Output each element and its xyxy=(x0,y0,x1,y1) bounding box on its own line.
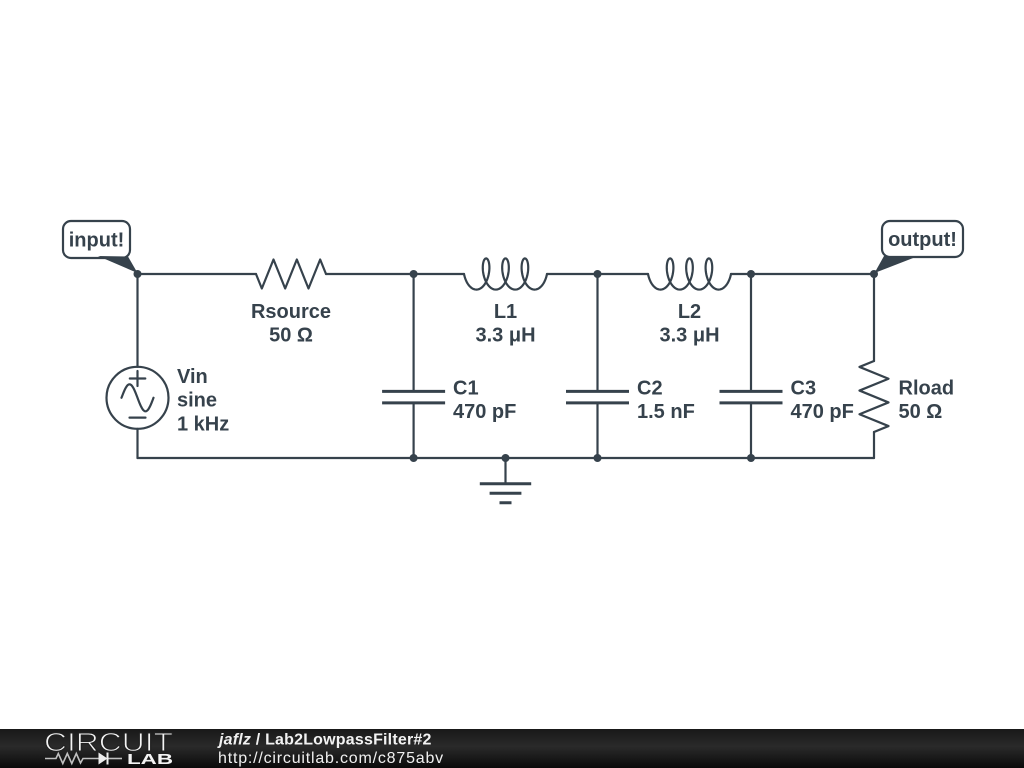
svg-text:jaflz / Lab2LowpassFilter#2: jaflz / Lab2LowpassFilter#2 xyxy=(217,731,432,748)
svg-text:output!: output! xyxy=(888,229,957,251)
svg-text:470 pF: 470 pF xyxy=(453,401,516,423)
svg-text:50 Ω: 50 Ω xyxy=(899,401,943,423)
svg-text:Rload: Rload xyxy=(899,378,955,400)
svg-text:http://circuitlab.com/c875abv: http://circuitlab.com/c875abv xyxy=(218,750,444,767)
svg-text:C1: C1 xyxy=(453,378,479,400)
svg-text:L1: L1 xyxy=(494,301,517,323)
svg-text:LAB: LAB xyxy=(127,751,173,768)
svg-text:C2: C2 xyxy=(637,378,663,400)
svg-text:sine: sine xyxy=(177,390,217,412)
svg-text:Vin: Vin xyxy=(177,366,208,388)
svg-text:L2: L2 xyxy=(678,301,701,323)
svg-text:input!: input! xyxy=(69,230,125,252)
svg-text:Rsource: Rsource xyxy=(251,301,331,323)
svg-text:C3: C3 xyxy=(791,378,817,400)
svg-text:3.3 μH: 3.3 μH xyxy=(475,324,535,346)
svg-text:50 Ω: 50 Ω xyxy=(269,324,313,346)
svg-text:1.5 nF: 1.5 nF xyxy=(637,401,695,423)
svg-text:1 kHz: 1 kHz xyxy=(177,414,229,436)
svg-text:470 pF: 470 pF xyxy=(791,401,854,423)
svg-text:3.3 μH: 3.3 μH xyxy=(659,324,719,346)
